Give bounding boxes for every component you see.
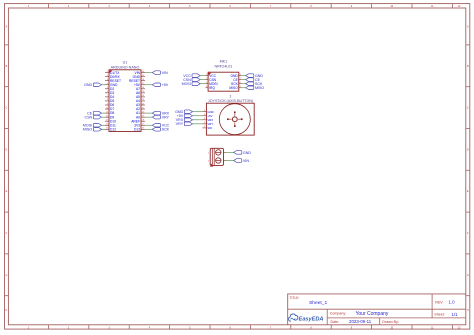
wire +5V to U1.+5V (145, 84, 152, 86)
pin 9 U1.D6 (105, 103, 114, 107)
svg-text:EasyEDA: EasyEDA (299, 316, 324, 322)
IC U1 ARDUINO NANO body (109, 70, 141, 132)
pin 2 JOY.+5V (202, 114, 212, 118)
svg-text:1/1: 1/1 (452, 312, 459, 317)
pin 6 MK1.SCK (231, 82, 242, 86)
wire CE to MK1.CE (241, 79, 245, 81)
company cell (330, 311, 389, 317)
pin 5 JOY.SW (202, 126, 212, 130)
pin 4 JOY.VRY (202, 122, 213, 126)
port +5V (joystick) (177, 114, 193, 118)
pin 28 U1.RESET (129, 79, 145, 83)
MK1 name NRF24L01 (214, 64, 232, 68)
U1 name ARDUINO NANO (111, 65, 140, 69)
wire VRY to joystick VRY (193, 123, 203, 125)
svg-text:Sheet:: Sheet: (434, 313, 444, 317)
svg-text:H: H (6, 309, 8, 312)
pin 7 U1.D4 (105, 95, 114, 99)
pin 7 MK1.CE (233, 78, 241, 82)
pin 2 U1.D0/RX (105, 75, 121, 79)
svg-text:D: D (6, 148, 8, 151)
wire MISO to U1.D12 (102, 128, 106, 130)
svg-text:SW: SW (207, 126, 212, 130)
svg-text:C: C (467, 107, 469, 110)
pin 10 U1.D7 (105, 107, 114, 111)
pin 29 U1.GND (133, 75, 145, 79)
port MISO (MK1 right) (246, 86, 265, 90)
pin 1 JOY.GND (202, 110, 213, 114)
rev cell (435, 300, 455, 305)
port MOSI (U1 left) (83, 124, 102, 128)
title text (290, 296, 328, 306)
pin 18 U1.AREF (131, 119, 145, 123)
svg-text:Date:: Date: (331, 320, 340, 324)
svg-text:1.0: 1.0 (449, 300, 456, 305)
port GND (terminal) (234, 151, 252, 155)
port MISO (U1 left) (83, 128, 102, 132)
title block (288, 294, 466, 325)
port +5V (U1 right) (152, 83, 168, 87)
wire VRY to U1.A0 (145, 116, 152, 118)
wire VCC to U1.3V3 (145, 124, 152, 126)
pin 4 MK1.IRQ (206, 86, 216, 90)
EasyEDA logo (289, 314, 324, 322)
svg-text:Company:: Company: (330, 312, 346, 316)
wire +5V to joystick +5V (193, 115, 203, 117)
pin 3 U1.RESET (105, 79, 121, 83)
port CSN (MK1 left) (183, 78, 200, 82)
svg-text:MOSI: MOSI (182, 82, 191, 86)
pin 3 JOY.VRX (202, 118, 213, 122)
port CE (U1 left) (87, 111, 101, 115)
svg-text:G: G (467, 274, 469, 277)
port GND (joystick) (175, 110, 192, 114)
wire CSN to MK1.CSN (200, 79, 205, 81)
wire terminal pin2 to VIN (224, 160, 234, 162)
svg-text:GND: GND (84, 83, 92, 87)
joystick cross arrows (227, 111, 243, 127)
svg-text:VIN: VIN (162, 71, 168, 75)
svg-text:MK1: MK1 (220, 59, 228, 63)
wire MISO to MK1.MISO (241, 87, 245, 89)
pin 30 U1.VIN (135, 71, 146, 75)
port VIN (terminal) (234, 159, 250, 163)
wire VIN to U1.VIN (145, 72, 152, 74)
svg-text:H: H (467, 309, 469, 312)
joystick refdes 1 (229, 94, 231, 98)
port SCK (U1 right) (152, 128, 169, 132)
date cell (331, 319, 399, 324)
pin 4 U1.GND (105, 83, 118, 87)
port VRY (U1 right) (152, 115, 169, 119)
svg-text:D13: D13 (134, 127, 140, 131)
svg-text:Your Company: Your Company (356, 311, 389, 317)
wire VRX to joystick VRX (193, 119, 203, 121)
wire VRX to U1.A1 (145, 112, 152, 114)
connector screw terminal body (208, 148, 224, 166)
pin 17 U1.3V3 (134, 123, 145, 127)
svg-text:MISO: MISO (255, 86, 264, 90)
svg-text:ARDUINO NANO: ARDUINO NANO (111, 65, 140, 69)
wire VCC to MK1.VCC (200, 75, 205, 77)
port VCC (U1 right) (152, 124, 169, 128)
module 1 JOYSTICK (AXIS-BUTTON) body (206, 103, 254, 135)
wire CE to U1.D8 (102, 112, 106, 114)
port GND (U1 left) (84, 83, 101, 87)
svg-text:MISO: MISO (229, 86, 238, 90)
port CSN (U1 left) (85, 115, 102, 119)
pin 1 MK1.VCC (206, 74, 217, 78)
svg-text:2023-09-11: 2023-09-11 (349, 319, 372, 324)
svg-text:1: 1 (229, 94, 231, 98)
pin 8 U1.D5 (105, 99, 114, 103)
port VCC (MK1 left) (183, 74, 200, 78)
svg-text:JOYSTICK (AXIS-BUTTON): JOYSTICK (AXIS-BUTTON) (208, 99, 253, 103)
wire SCK to MK1.SCK (241, 83, 245, 85)
port MOSI (MK1 left) (182, 82, 201, 86)
pin 14 U1.D11 (105, 123, 116, 127)
pin 24 U1.A5 (136, 95, 145, 99)
wire MOSI to U1.D11 (102, 124, 106, 126)
port SCK (MK1 right) (246, 82, 263, 86)
svg-text:IRQ: IRQ (209, 86, 215, 90)
pin 13 U1.D10 (105, 119, 116, 123)
sheet cell (434, 312, 458, 317)
wire GND to MK1.GND (241, 75, 245, 77)
port CE (MK1 right) (246, 78, 261, 82)
pin 5 MK1.MISO (229, 86, 241, 90)
wire MOSI to MK1.MOSI (200, 83, 205, 85)
pin 20 U1.A1 (136, 111, 145, 115)
svg-text:GND: GND (243, 151, 251, 155)
svg-text:D: D (467, 148, 469, 151)
svg-text:VRY: VRY (162, 116, 170, 120)
pin 19 U1.A0 (136, 115, 145, 119)
pin 27 U1.+5V (134, 83, 145, 87)
pin 21 U1.A2 (136, 107, 145, 111)
svg-text:VRY: VRY (176, 122, 184, 126)
pin 26 U1.A7 (136, 87, 145, 91)
svg-text:+5V: +5V (162, 83, 169, 87)
joystick knob circle (219, 104, 250, 135)
port VIN (U1 right) (152, 71, 168, 75)
port GND (MK1 right) (246, 74, 264, 78)
svg-text:C: C (6, 107, 8, 110)
wire terminal pin1 to GND (224, 151, 234, 153)
U1 refdes (123, 60, 128, 64)
pin 3 MK1.MOSI (206, 82, 218, 86)
svg-text:G: G (5, 274, 7, 277)
wire SCK to U1.D13 (145, 128, 152, 130)
wire GND to joystick GND (193, 111, 203, 113)
svg-text:U1: U1 (123, 60, 128, 64)
svg-text:REV:: REV: (435, 300, 443, 304)
MK1 refdes (220, 59, 228, 63)
port VRX (U1 right) (152, 111, 169, 115)
wire GND to U1 pin 4 (102, 84, 106, 86)
pin 16 U1.D13 (134, 127, 145, 131)
pin 25 U1.A6 (136, 91, 145, 95)
module MK1 NRF24L01 body (208, 72, 239, 91)
svg-text:NRF24L01: NRF24L01 (214, 64, 232, 68)
pin 23 U1.A4 (136, 99, 145, 103)
pin 15 U1.D12 (105, 127, 116, 131)
svg-text:CSN: CSN (85, 116, 93, 120)
port VRY (joystick) (176, 122, 193, 126)
pin 6 U1.D3 (105, 91, 114, 95)
joystick name (208, 99, 253, 103)
svg-text:Drawn By:: Drawn By: (382, 320, 399, 324)
pin 12 U1.D9 (105, 115, 114, 119)
pin 2 MK1.CSN (206, 78, 217, 82)
pin 1 U1.D1/TX (105, 71, 120, 75)
svg-text:SCK: SCK (162, 128, 170, 132)
svg-text:Sheet_1: Sheet_1 (309, 300, 328, 306)
wire CSN to U1.D9 (102, 116, 106, 118)
pin 8 MK1.GND (230, 74, 241, 78)
pin 5 U1.D2 (105, 87, 114, 91)
pin 22 U1.A3 (136, 103, 145, 107)
svg-text:MISO: MISO (83, 128, 92, 132)
svg-text:TITLE:: TITLE: (290, 296, 300, 300)
svg-text:VIN: VIN (243, 159, 249, 163)
pin 11 U1.D8 (105, 111, 114, 115)
svg-text:D12: D12 (110, 127, 116, 131)
port VRX (joystick) (176, 118, 193, 122)
